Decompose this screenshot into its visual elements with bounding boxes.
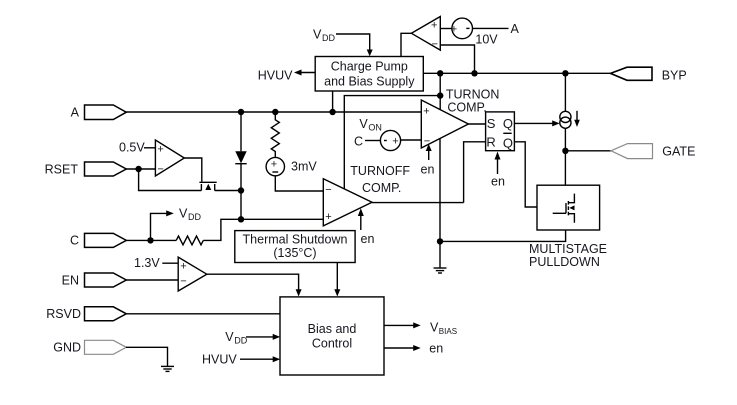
- pin GND: [85, 340, 127, 354]
- svg-text:BYP: BYP: [662, 68, 687, 82]
- wire GND pin to ground: [126, 347, 168, 366]
- pin RSVD: [85, 307, 127, 321]
- pin C: [85, 233, 127, 247]
- svg-text:PULLDOWN: PULLDOWN: [529, 255, 600, 269]
- op-amp U2 10V clamp: [411, 17, 440, 51]
- svg-text:Q: Q: [503, 116, 513, 131]
- junction dot clamp-minus: [471, 70, 477, 76]
- charge pump U3: [315, 57, 423, 92]
- svg-text:Bias and: Bias and: [308, 322, 357, 336]
- svg-text:V: V: [313, 28, 322, 42]
- current direction arrow: [576, 111, 578, 121]
- transistor Q2 rset fet: [199, 182, 216, 190]
- svg-text:−: −: [157, 164, 163, 176]
- wire clamp output to charge pump: [401, 33, 411, 56]
- svg-text:3mV: 3mV: [291, 160, 317, 174]
- resistor R1 (A to 3mV): [271, 112, 279, 158]
- block multistage pulldown: [537, 185, 600, 230]
- wire VON source to turnon minus input: [401, 139, 422, 141]
- wire opamp output to fet gate: [184, 158, 202, 182]
- wire current source to gate node and pulldown: [564, 128, 566, 185]
- svg-text:Thermal Shutdown: Thermal Shutdown: [243, 232, 348, 246]
- wire supply stub into turnon comp: [439, 96, 441, 110]
- latch U5 SR: [486, 112, 515, 151]
- label VDD (C pullup): [179, 207, 201, 223]
- svg-text:(135°C): (135°C): [273, 246, 316, 260]
- svg-text:TURNON: TURNON: [446, 87, 499, 101]
- wire clamp plus input to 10V source: [440, 28, 452, 30]
- wire 1.3V to en comp plus: [162, 262, 178, 264]
- junction dot gate node: [562, 148, 568, 154]
- junction dot diode top: [238, 109, 244, 115]
- comparator U7 EN: [178, 257, 207, 291]
- svg-text:Charge Pump: Charge Pump: [331, 59, 408, 73]
- svg-text:−: −: [325, 184, 331, 196]
- svg-text:HVUV: HVUV: [258, 68, 293, 82]
- svg-text:V: V: [430, 321, 439, 335]
- arrowhead into charge pump top: [367, 50, 373, 57]
- wire 10V source to A: [473, 27, 509, 29]
- wire RSET pin to opamp minus: [126, 168, 155, 170]
- voltage source V3 VON: [380, 130, 400, 150]
- pin A: [85, 105, 127, 120]
- junction dot ground node: [437, 238, 443, 244]
- wire VDD to charge pump: [336, 34, 370, 50]
- wire C pin to resistor: [126, 239, 176, 241]
- label TURNOFF COMP.: [350, 164, 410, 195]
- svg-text:+: +: [431, 19, 437, 31]
- svg-text:1.3V: 1.3V: [134, 256, 160, 270]
- en arrow into latch: [497, 159, 499, 175]
- svg-text:DD: DD: [188, 212, 201, 222]
- junction dot resistor top: [272, 109, 278, 115]
- label VON: [359, 117, 382, 133]
- pin GATE: [611, 144, 653, 159]
- wire latch Qbar to pulldown: [514, 142, 537, 207]
- pin EN: [85, 273, 127, 287]
- wire EN pin to en comp minus: [126, 279, 178, 281]
- wire latch R from turnoff comp: [372, 142, 486, 203]
- comparator U4 TURNON: [421, 100, 468, 148]
- label VDD (bias input): [225, 330, 247, 346]
- junction dot BYP-supply: [437, 70, 443, 76]
- svg-text:and Bias Supply: and Bias Supply: [324, 74, 415, 88]
- svg-text:+: +: [271, 158, 277, 170]
- svg-text:en: en: [361, 232, 375, 246]
- ground (GND pin): [161, 366, 174, 371]
- block bias and control: [280, 297, 384, 375]
- svg-text:+: +: [157, 144, 163, 156]
- svg-text:Q: Q: [503, 135, 513, 150]
- wire turnon output to latch S: [468, 123, 485, 125]
- wire 0.5V to opamp plus: [144, 147, 155, 149]
- wire latch Q to current source with arrowhead: [514, 122, 552, 124]
- wire A rail to diode: [240, 112, 242, 151]
- ground (comparator return): [434, 268, 447, 273]
- svg-text:TURNOFF: TURNOFF: [350, 164, 410, 178]
- svg-text:GATE: GATE: [662, 144, 695, 158]
- svg-text:MULTISTAGE: MULTISTAGE: [529, 242, 607, 256]
- pin BYP: [611, 67, 653, 80]
- svg-text:A: A: [71, 106, 80, 120]
- svg-text:DD: DD: [234, 336, 247, 346]
- wire fet drain to diode node: [215, 190, 241, 192]
- wire en output: [384, 347, 414, 349]
- diode D1: [235, 151, 246, 163]
- svg-text:R: R: [486, 135, 495, 150]
- comparator U6 TURNOFF: [323, 179, 372, 226]
- wire A rail: [126, 111, 421, 113]
- svg-text:COMP.: COMP.: [362, 181, 401, 195]
- wire BYP to current source: [564, 73, 566, 111]
- svg-text:C: C: [70, 234, 79, 248]
- voltage source V2 10V: [452, 18, 473, 39]
- wire thermal shutdown to bias block: [336, 263, 338, 291]
- svg-text:C: C: [354, 135, 363, 149]
- svg-text:HVUV: HVUV: [202, 352, 237, 366]
- wire BYP rail: [423, 72, 610, 74]
- junction dot fet drain: [238, 187, 244, 193]
- label VDD top: [313, 28, 335, 44]
- junction dot C node: [147, 237, 153, 243]
- junction dot supply node: [437, 92, 443, 98]
- pin RSET: [85, 162, 127, 176]
- svg-text:0.5V: 0.5V: [119, 141, 145, 155]
- resistor R2 (C to turnoff): [176, 236, 203, 245]
- svg-text:+: +: [392, 136, 398, 148]
- svg-text:V: V: [225, 330, 234, 344]
- wire VBIAS output: [384, 324, 414, 326]
- svg-text:A: A: [511, 22, 520, 36]
- wire charge pump bottom to A rail: [332, 91, 334, 112]
- svg-text:V: V: [359, 117, 368, 131]
- svg-text:Control: Control: [312, 337, 352, 351]
- junction dot current source branch: [562, 70, 568, 76]
- voltage source V1 3mV: [266, 157, 284, 175]
- junction dot rset: [135, 166, 141, 172]
- svg-text:COMP.: COMP.: [447, 100, 486, 114]
- wire turnon comp return to ground: [439, 139, 441, 269]
- svg-text:V: V: [179, 207, 188, 221]
- wire diode to turnoff plus node: [240, 164, 242, 220]
- wire HVUV into bias block: [240, 358, 273, 360]
- en arrow into turnoff comp: [360, 215, 362, 230]
- svg-text:GND: GND: [53, 341, 81, 355]
- svg-text:10V: 10V: [475, 33, 498, 47]
- svg-text:+: +: [451, 23, 457, 35]
- transistor Q1 pulldown nmos: [553, 194, 575, 223]
- svg-text:en: en: [491, 175, 505, 189]
- svg-text:ON: ON: [368, 123, 382, 133]
- block thermal shutdown: [235, 231, 355, 263]
- svg-text:RSET: RSET: [45, 163, 79, 177]
- wire C to VON source: [365, 140, 380, 142]
- svg-text:+: +: [325, 211, 331, 223]
- svg-text:S: S: [487, 116, 496, 131]
- svg-text:EN: EN: [62, 273, 79, 287]
- svg-text:BIAS: BIAS: [439, 327, 457, 336]
- wire C node to VDD arrow: [151, 213, 167, 240]
- wire rset feedback to fet source: [139, 169, 202, 191]
- svg-text:−: −: [180, 276, 186, 288]
- svg-text:en: en: [421, 163, 435, 177]
- current source I1: [560, 111, 571, 122]
- svg-text:RSVD: RSVD: [46, 307, 81, 321]
- wire 3mV to turnoff minus: [275, 176, 323, 191]
- label MULTISTAGE PULLDOWN: [529, 242, 607, 269]
- junction dot turnoff plus node: [238, 216, 244, 222]
- wire VDD into bias block: [246, 336, 273, 338]
- svg-text:+: +: [423, 105, 429, 117]
- en arrow into turnon comp: [428, 150, 430, 160]
- wire gate node to GATE pin: [565, 150, 611, 152]
- label VBIAS: [430, 321, 457, 336]
- svg-text:+: +: [180, 261, 186, 273]
- junction dot charge pump feed: [329, 109, 335, 115]
- wire resistor to turnoff plus: [203, 219, 323, 240]
- label TURNON COMP.: [446, 87, 499, 114]
- wire BYP to comparator supplies: [344, 73, 440, 188]
- svg-text:−: −: [432, 39, 438, 51]
- svg-text:DD: DD: [322, 33, 335, 43]
- svg-text:en: en: [429, 341, 443, 355]
- wire pulldown bottom to ground node: [440, 230, 566, 241]
- wire RSVD pin to bias block: [126, 313, 280, 315]
- wire en comp output to bias block: [207, 274, 299, 290]
- op-amp U1 rset: [155, 140, 184, 176]
- wire clamp minus input to BYP rail: [440, 45, 474, 73]
- node HVUV output arrow: [298, 72, 315, 74]
- overline on Qbar: [503, 132, 511, 134]
